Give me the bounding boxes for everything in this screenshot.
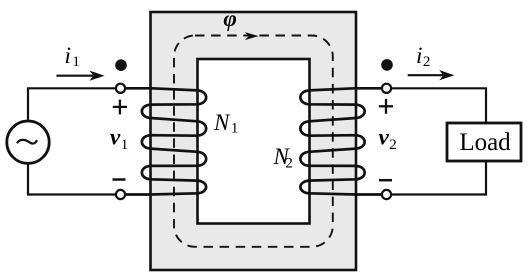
plus sign right [379, 99, 393, 114]
transformer core (laminated core, gray) [151, 12, 357, 270]
plus sign left [113, 100, 127, 115]
minus sign right [379, 179, 392, 182]
load box [447, 123, 521, 161]
svg-text:v1: v1 [110, 125, 128, 154]
terminal node upper-left [116, 84, 125, 93]
minus sign left [113, 178, 126, 181]
terminal node upper-right [382, 84, 391, 93]
current arrow i1 [56, 71, 104, 81]
secondary winding N2 (coil on right leg, mirror of primary) [300, 88, 386, 194]
core window [198, 59, 310, 224]
svg-text:v2: v2 [379, 125, 397, 154]
wire: load bottom to lower-right terminal [387, 161, 487, 195]
svg-text:Load: Load [459, 129, 511, 156]
wire: upper-right terminal to load [387, 88, 487, 123]
flux path (dashed) [174, 36, 333, 247]
current arrow i2 [408, 70, 455, 80]
terminal node lower-right [382, 190, 391, 199]
svg-text:i1: i1 [65, 43, 80, 70]
svg-text:i2: i2 [416, 43, 430, 70]
wire: source bottom to lower-left terminal [28, 163, 118, 195]
flux direction arrowhead [245, 32, 259, 40]
svg-text:φ: φ [223, 6, 236, 31]
polarity dot left [115, 59, 127, 71]
terminal node lower-left [116, 190, 125, 199]
primary winding N1 (coil on left leg) [121, 88, 207, 194]
ac source Vs [7, 121, 49, 163]
polarity dot right [381, 59, 393, 71]
wire: source top to upper-left terminal [28, 88, 118, 122]
